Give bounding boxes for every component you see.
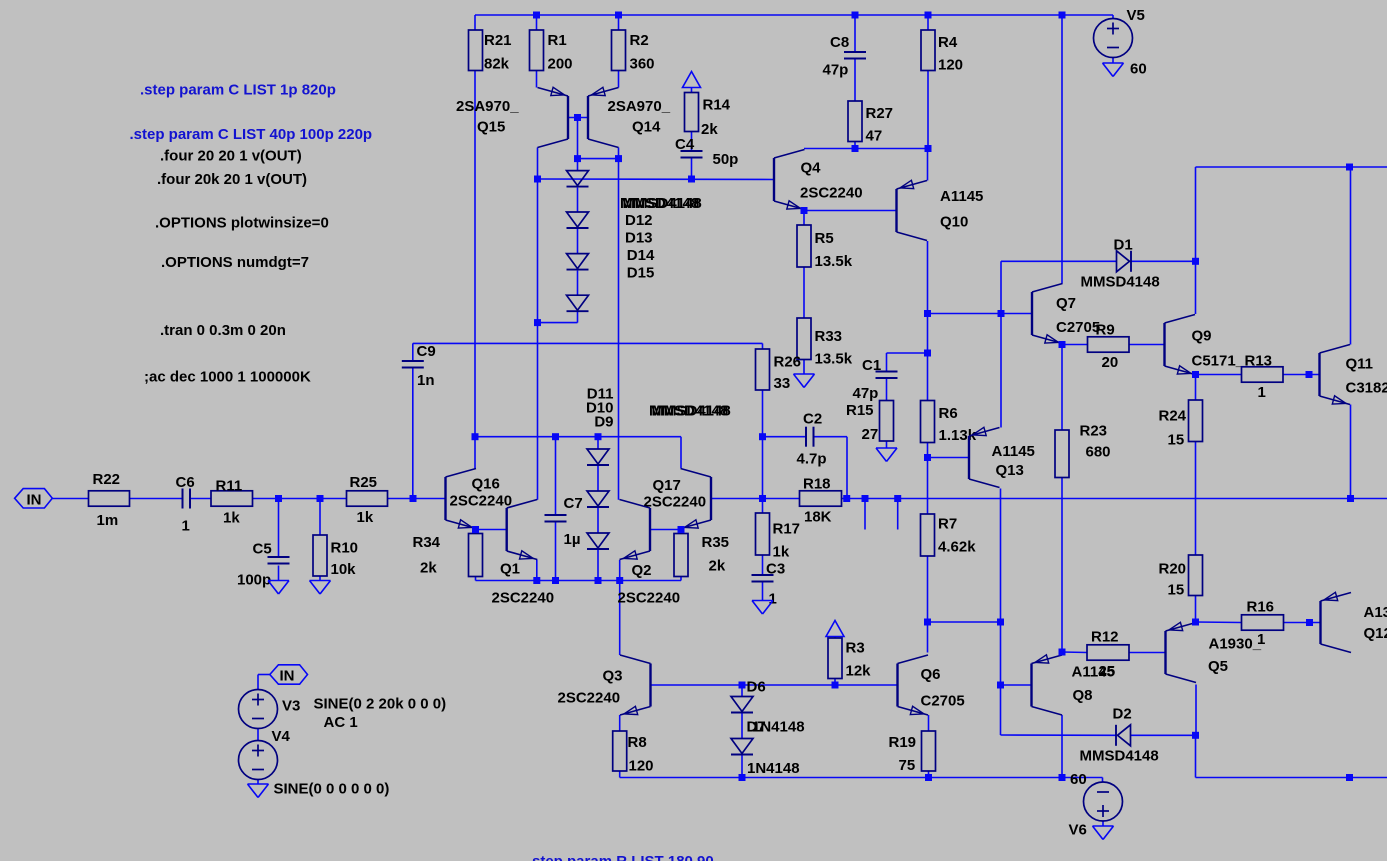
wire R4 bottom [927,71,929,149]
node junction [616,577,623,584]
wire R1 top [536,15,538,30]
wire Q4 base bus [538,178,775,181]
label D10 [586,400,614,417]
wire Q8 collector down [1061,715,1063,778]
node junction [924,310,931,317]
wire C9 bottom [412,368,414,499]
wire R26 top [762,343,764,349]
node junction [924,454,931,461]
wire C6 to R11 [190,498,211,500]
node junction [1347,495,1354,502]
svg-text:R2: R2 [630,32,649,49]
voltage source V4 [239,728,291,780]
capacitor C4 [675,136,738,168]
resistor R13 [1242,352,1284,401]
svg-text:33: 33 [774,375,791,392]
label D9 [594,414,613,431]
wire C5 to ground [278,566,280,581]
node junction [1192,371,1199,378]
resistor R24 [1159,400,1203,448]
directive .step R [532,853,714,861]
svg-text:.OPTIONS plotwinsize=0: .OPTIONS plotwinsize=0 [155,214,329,231]
node junction [924,619,931,626]
svg-text:C9: C9 [417,343,436,360]
wire R12 to Q5 base [1129,652,1166,654]
svg-text:2SA970_: 2SA970_ [608,98,671,115]
svg-text:D6: D6 [747,678,766,695]
wire base to Q14 collector [578,158,619,160]
svg-text:200: 200 [548,55,573,72]
svg-text:.step param C LIST 1p 820p: .step param C LIST 1p 820p [140,82,336,99]
wire stub B [897,499,899,530]
ground below R33 [794,374,815,388]
svg-text:SINE(0 0 0 0 0 0): SINE(0 0 0 0 0 0) [274,780,390,797]
wire C7 top [555,437,557,515]
transistor Q11 [1320,345,1387,405]
wire R14 to C4 [691,132,693,152]
svg-text:C4: C4 [675,136,695,153]
node junction [852,145,859,152]
resistor R4 [921,30,963,73]
node junction [925,12,932,19]
transistor Q12 [1321,592,1387,652]
svg-text:.OPTIONS numdgt=7: .OPTIONS numdgt=7 [161,254,309,271]
wire IN2 flag [258,674,270,676]
svg-text:2SC2240: 2SC2240 [800,185,863,202]
wire Q1 emitter down [536,560,538,581]
wire R24 to R20 [1195,442,1197,556]
svg-text:R19: R19 [889,734,917,751]
node junction [574,155,581,162]
svg-text:R17: R17 [773,520,801,537]
wire R9 to Q9 base [1129,344,1165,346]
resistor R25 [347,474,388,526]
node junction [739,682,746,689]
wire to D12 [577,159,579,171]
wire D11 top [597,437,599,449]
resistor R33 [797,318,853,367]
wire Q1 base row [476,529,507,531]
svg-text:step param R LIST 180 90: step param R LIST 180 90 [532,853,714,861]
transistor Q17 [644,469,712,529]
wire Q9 emitter to R24 [1195,375,1197,401]
wire R11 to R25 [253,498,347,500]
wire Q11 collector up [1350,167,1352,345]
svg-text:C2705: C2705 [921,692,965,709]
transistor Q1 [492,500,555,607]
capacitor C1 [853,357,898,402]
node junction [678,526,685,533]
svg-text:R27: R27 [866,105,894,122]
resistor R22 [89,471,130,529]
svg-text:100p: 100p [237,571,271,588]
svg-text:2SC2240: 2SC2240 [644,493,707,510]
wire V6 to ground [1102,821,1104,826]
svg-text:C5171_: C5171_ [1192,352,1245,369]
svg-text:R8: R8 [628,734,647,751]
voltage source V6 [1069,771,1123,838]
directive .OPTIONS plotwinsize [155,214,329,231]
wire C1 top [886,353,888,372]
svg-text:A1302: A1302 [1364,604,1387,621]
wire to R9 [1062,344,1088,346]
svg-text:D9: D9 [594,414,613,431]
svg-text:C8: C8 [830,34,849,51]
svg-text:2k: 2k [709,558,726,575]
wire V4 to ground [257,780,259,785]
label MMSD4148 (D12-D15) [620,195,702,212]
svg-text:Q3: Q3 [603,668,623,685]
wire Q9 collector up [1195,167,1197,314]
svg-text:R21: R21 [484,32,512,49]
svg-text:R11: R11 [216,478,243,495]
svg-text:V6: V6 [1069,821,1087,838]
wire Q3 emitter to R8 [619,715,621,731]
diode D9 [587,533,609,549]
wire D6 top [741,685,743,697]
wire R1 to Q15 emitter [536,71,538,88]
transistor Q7 [1032,284,1100,344]
svg-text:2SC2240: 2SC2240 [450,492,513,509]
wire D9 bottom [597,550,599,581]
diode D14 [567,254,589,270]
svg-text:MMSD4148: MMSD4148 [652,403,731,420]
wire to R10 [319,499,321,536]
wire R13 to Q11 base [1283,374,1320,376]
node junction [275,495,282,502]
svg-text:12k: 12k [846,663,872,680]
svg-text:13.5k: 13.5k [815,350,853,367]
svg-text:47p: 47p [823,61,849,78]
svg-text:R10: R10 [331,539,359,556]
wire C2 right [814,436,848,438]
transistor Q3 [558,655,651,715]
svg-text:Q5: Q5 [1208,658,1228,675]
wire R35 bottom [680,577,682,581]
svg-text:R24: R24 [1159,407,1187,424]
node junction [534,319,541,326]
wire top right rail [1196,166,1387,168]
ground below V5 [1103,63,1124,77]
resistor R27 [848,101,893,145]
wire rail to V5 [1112,15,1114,19]
svg-text:2SC2240: 2SC2240 [492,589,555,606]
svg-text:15: 15 [1168,581,1185,598]
wire Q7 collector up [1061,15,1063,284]
wire bottom right rail [1196,777,1387,779]
wire Q6 emitter to R19 [928,715,930,731]
wire Q15-Q14 base link [568,117,588,119]
node junction [925,774,932,781]
wire V6 top [1102,778,1104,783]
resistor R35 [674,534,729,577]
diode D10 [587,491,609,507]
svg-text:C6: C6 [176,474,195,491]
svg-text:R14: R14 [703,97,731,114]
ground below V4 [248,784,269,798]
wire Q17 collector up [680,437,682,468]
svg-text:680: 680 [1086,443,1111,460]
node junction [894,495,901,502]
label SINE V3 [314,696,447,731]
node junction [1306,619,1313,626]
svg-text:A1145: A1145 [940,188,983,205]
wire feedback line [842,498,1351,500]
resistor R21 [469,30,512,72]
label D12 [625,212,653,229]
svg-text:25: 25 [1099,663,1116,680]
ground flag above R14 [683,72,701,88]
transistor Q15 [456,87,568,147]
node junction [998,310,1005,317]
resistor R26 [756,349,802,392]
wire to R18 [763,498,800,500]
svg-text:R3: R3 [846,640,865,657]
wire C9 to R26 bus [413,342,763,344]
node junction [852,12,859,19]
wire D6-D7 [741,714,743,739]
wire C1 to R15 [886,378,888,401]
diode D1 [1081,236,1160,290]
node junction [552,577,559,584]
wire rail to C8 [854,15,856,52]
node junction [1306,371,1313,378]
ground below V6 [1093,826,1114,840]
svg-text:.four 20 20 1 v(OUT): .four 20 20 1 v(OUT) [160,147,302,164]
resistor R5 [797,225,853,270]
node junction [595,577,602,584]
svg-text:10k: 10k [331,561,357,578]
node junction [574,114,581,121]
node junction [759,433,766,440]
label D14 [627,247,655,264]
wire R19 bottom [928,771,930,778]
wire Q5 collector down [1195,685,1197,736]
svg-text:47p: 47p [853,385,879,402]
wire R17 to C3 [762,555,764,575]
wire Q10 base row [804,210,897,212]
transistor Q4 [774,150,863,210]
resistor R14 [685,93,731,138]
diode D11 [587,449,609,465]
wire Q2 base row [650,529,681,531]
transistor Q16 [446,469,513,529]
wire R6 to R7 [927,443,929,515]
wire Q17 base row [711,498,763,500]
svg-text:.tran 0 0.3m 0 20n: .tran 0 0.3m 0 20n [160,322,286,339]
svg-text:1n: 1n [417,372,435,389]
node junction [925,145,932,152]
svg-text:V5: V5 [1127,7,1145,24]
wire to R13 [1196,374,1242,376]
svg-text:50p: 50p [713,151,739,168]
svg-text:IN: IN [27,491,42,508]
wire R22 to C6 [130,498,183,500]
resistor R18 [800,476,842,526]
ground below C5 [268,581,289,595]
svg-text:13.5k: 13.5k [815,253,853,270]
node junction [615,155,622,162]
svg-text:AC 1: AC 1 [324,714,358,731]
svg-text:Q11: Q11 [1346,355,1374,372]
wire Q8 emitter stub [1061,652,1063,656]
svg-text:Q6: Q6 [921,666,941,683]
wire Q8 base row [1001,684,1032,686]
svg-text:Q1: Q1 [500,561,520,578]
wire to R35 [680,529,682,534]
svg-text:R4: R4 [938,34,958,51]
svg-text:120: 120 [629,758,654,775]
wire Q2 emitter down [619,560,621,581]
transistor Q5 [1166,622,1266,682]
resistor R1 [530,30,573,72]
svg-text:IN: IN [280,668,295,685]
wire C2 down [846,437,848,499]
node junction [533,12,540,19]
svg-text:MMSD4148: MMSD4148 [1081,273,1160,290]
svg-text:R18: R18 [803,476,831,493]
resistor R3 [828,638,871,680]
node junction [1192,732,1199,739]
svg-text:V3: V3 [282,697,300,714]
wire mirror-node bus [475,436,681,438]
node junction [533,577,540,584]
wire V5 to ground [1112,58,1114,64]
wire C3 to ground [762,582,764,601]
svg-text:15: 15 [1168,431,1185,448]
node junction [997,619,1004,626]
ground below R15 [876,448,897,462]
svg-text:D12: D12 [625,212,653,229]
svg-text:R5: R5 [815,230,834,247]
voltage source V5 [1094,7,1147,78]
wire Q6 base row [742,684,898,686]
wire R20 bottom [1195,596,1197,623]
wire R26 bottom [762,390,764,499]
wire Q15 collector column [537,148,539,500]
transistor Q6 [898,655,965,715]
wire Q14 collector column [618,148,620,500]
diode D13 [567,212,589,228]
wire bottom left rail [620,777,1103,779]
directive .step 1 [140,82,336,99]
resistor R15 [846,401,894,443]
node junction [1059,341,1066,348]
resistor R16 [1242,599,1284,631]
wire C1 branch [887,352,928,354]
svg-text:Q15: Q15 [477,119,505,136]
svg-text:2SA970_: 2SA970_ [456,98,519,115]
wire diode string bend [538,322,578,324]
transistor Q9 [1165,315,1245,375]
wire Q16 emitter to R34 [475,529,477,534]
wire R16 to Q12 base [1284,622,1321,624]
svg-text:Q10: Q10 [940,214,968,231]
ground flag above R3 [826,621,844,637]
svg-text:4.62k: 4.62k [938,538,976,555]
node junction [472,526,479,533]
svg-text:27: 27 [862,426,879,443]
svg-text:1k: 1k [357,509,374,526]
resistor R11 [211,478,253,527]
svg-text:18K: 18K [804,508,832,525]
wire down to rail [1195,735,1197,777]
svg-text:Q4: Q4 [801,159,822,176]
svg-text:4.7p: 4.7p [797,450,827,467]
svg-text:Q16: Q16 [472,476,500,493]
diode D12 [567,171,589,187]
svg-text:Q12: Q12 [1364,625,1387,642]
label D13 [625,229,653,246]
svg-text:R16: R16 [1247,599,1275,616]
wire Q13 base row [928,457,970,459]
wire R7 to Q6 collector [927,556,929,653]
wire to R12 [1062,651,1087,654]
svg-text:C1: C1 [862,357,881,374]
wire mid link [928,621,1001,623]
voltage source V3 [239,690,301,729]
svg-text:R25: R25 [350,474,378,491]
wire base down [577,118,579,159]
svg-text:60: 60 [1070,771,1087,788]
wire C4 to bus [691,158,693,179]
svg-text:R6: R6 [939,405,958,422]
svg-text:R22: R22 [93,471,121,488]
resistor R10 [313,535,358,578]
svg-text:MMSD4148: MMSD4148 [623,195,702,212]
wire Q10 emitter up [927,149,929,181]
svg-text:R23: R23 [1080,422,1108,439]
capacitor C6 [176,474,195,535]
diode D7 [731,739,800,778]
ground below C3 [752,601,773,615]
node junction [317,495,324,502]
resistor R23 [1055,422,1111,477]
node junction [1059,12,1066,19]
svg-text:Q14: Q14 [632,119,661,136]
svg-text:120: 120 [938,56,963,73]
node junction [801,207,808,214]
node junction [862,495,869,502]
wire D13-D14 [577,229,579,254]
wire D7 bottom [741,756,743,778]
wire D15 bottom [577,312,579,323]
svg-text:R33: R33 [815,328,843,345]
wire C8 to R27 [854,59,856,102]
capacitor C2 [797,411,827,468]
flag IN input [15,489,53,509]
node junction [688,176,695,183]
wire R8 bottom [619,771,621,778]
node junction [924,350,931,357]
label D7 and 1N4148 [747,718,805,735]
wire to V3 [257,675,259,690]
svg-text:360: 360 [630,55,655,72]
diode D6 [731,678,766,712]
svg-text:Q7: Q7 [1056,295,1076,312]
svg-text:Q17: Q17 [653,477,681,494]
transistor Q2 [618,500,681,607]
wire Q13 collector down [1000,489,1002,736]
wire D10-D9 [597,508,599,534]
wire C7 bottom [555,522,557,581]
wire flag to R3 [834,637,836,639]
svg-text:R26: R26 [774,354,802,371]
svg-text:A1145: A1145 [992,443,1035,460]
svg-text:R9: R9 [1096,322,1115,339]
wire out [1351,498,1387,500]
wire R33 to ground [803,360,805,375]
